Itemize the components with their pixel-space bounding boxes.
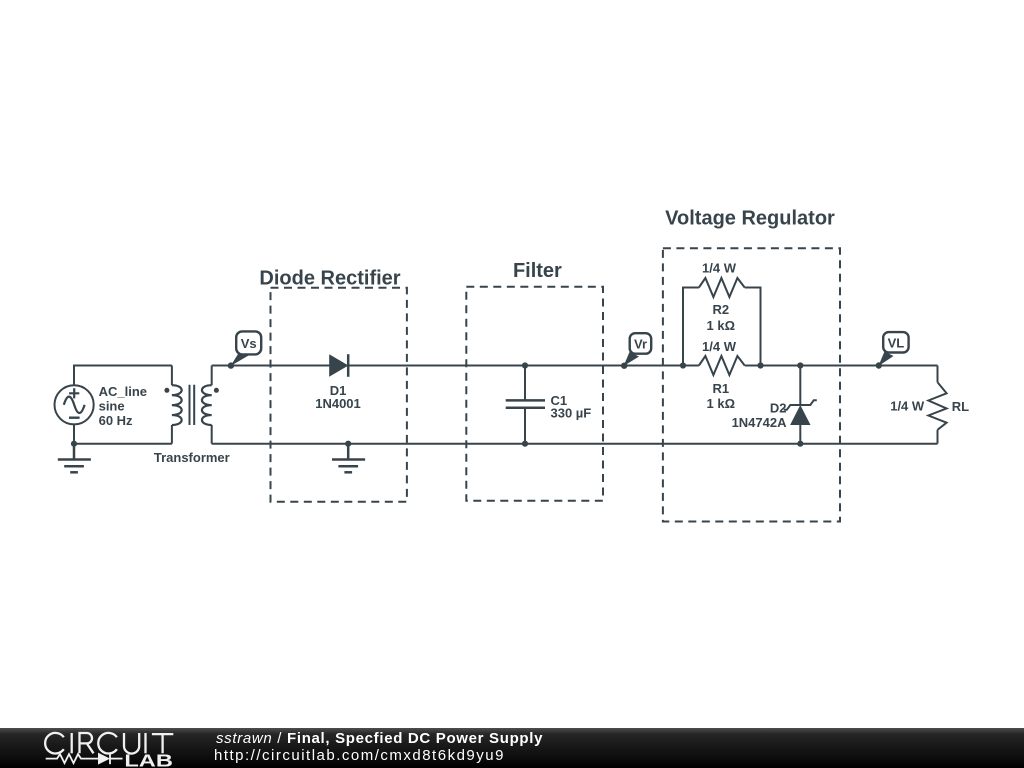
section box: Diode Rectifier xyxy=(271,288,407,502)
transformer T1 xyxy=(154,366,230,466)
svg-text:Diode Rectifier: Diode Rectifier xyxy=(259,267,400,289)
svg-text:Voltage Regulator: Voltage Regulator xyxy=(665,208,835,230)
wire bottom-main (transformer secondary to RL) xyxy=(212,443,938,445)
junction (D2 top) xyxy=(797,362,803,368)
svg-text:Transformer: Transformer xyxy=(154,450,230,465)
resistor R1 1k xyxy=(699,339,745,411)
svg-text:RL: RL xyxy=(952,399,969,414)
svg-text:1N4742A: 1N4742A xyxy=(732,415,788,430)
capacitor C1 330uF xyxy=(506,366,592,444)
node Vr xyxy=(621,333,651,369)
svg-text:Vr: Vr xyxy=(634,337,647,352)
svg-text:LAB: LAB xyxy=(124,750,172,768)
svg-text:1 kΩ: 1 kΩ xyxy=(707,396,736,411)
section box: Filter xyxy=(466,287,603,501)
svg-text:1 kΩ: 1 kΩ xyxy=(707,318,736,333)
svg-text:VL: VL xyxy=(888,335,905,350)
svg-text:R1: R1 xyxy=(712,381,729,396)
svg-text:R2: R2 xyxy=(712,302,729,317)
svg-text:AC_line: AC_line xyxy=(99,384,147,399)
node Vs xyxy=(228,331,262,368)
ground (rectifier) xyxy=(332,444,365,473)
resistor R2 1k (parallel branch) xyxy=(683,260,761,365)
footer title text xyxy=(216,730,543,747)
node VL xyxy=(876,332,909,369)
junction (D2 bottom) xyxy=(797,441,803,447)
svg-text:1/4 W: 1/4 W xyxy=(890,398,925,413)
footer url text xyxy=(214,747,505,764)
logo resistor-diode glyph xyxy=(46,753,123,765)
svg-text:Vs: Vs xyxy=(241,336,257,351)
diode D1 1N4001 xyxy=(315,354,361,411)
svg-text:1/4 W: 1/4 W xyxy=(702,339,737,354)
section box: Voltage Regulator xyxy=(663,248,840,521)
svg-text:D2: D2 xyxy=(770,401,787,416)
voltage source V1 AC_line xyxy=(55,384,148,428)
wire top-left (source to transformer primary) xyxy=(74,366,172,386)
wire top-main (transformer secondary to R1 left) xyxy=(212,365,699,367)
ground (at source) xyxy=(58,444,91,473)
svg-text:330 µF: 330 µF xyxy=(551,406,592,421)
junction (C1 top) xyxy=(522,362,528,368)
svg-text:1N4001: 1N4001 xyxy=(315,396,361,411)
logo CIRCUIT xyxy=(45,733,173,754)
junction (R2 right) xyxy=(757,362,763,368)
junction (R2 left) xyxy=(680,362,686,368)
svg-text:1/4 W: 1/4 W xyxy=(702,260,737,275)
wire bottom-left (source to transformer primary) xyxy=(74,424,172,443)
junction (C1 bottom) xyxy=(522,441,528,447)
svg-text:sine: sine xyxy=(99,399,125,414)
junction (rectifier ground) xyxy=(345,441,351,447)
wire top-right (R1 right to RL) xyxy=(745,365,938,367)
resistor RL load xyxy=(890,366,969,444)
svg-text:60 Hz: 60 Hz xyxy=(99,413,133,428)
junction (source/ground) xyxy=(71,441,77,447)
zener diode D2 1N4742A xyxy=(732,366,817,444)
svg-text:Filter: Filter xyxy=(513,260,562,282)
